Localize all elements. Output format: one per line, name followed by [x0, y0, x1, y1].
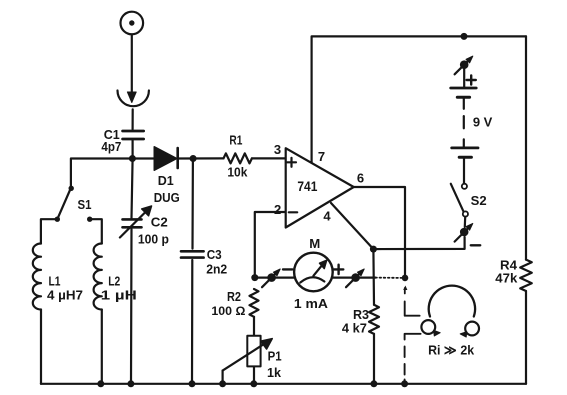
- wire L1 bottom to bus: [40, 310, 42, 384]
- wire C1 junction to S1: [71, 159, 132, 189]
- node bus L2: [97, 380, 104, 387]
- switch S1: [69, 186, 74, 191]
- wire R1 to op-amp pin 3: [252, 157, 286, 159]
- op-amp plus input: [287, 158, 296, 167]
- potentiometer P1: [247, 336, 260, 367]
- wire antenna cup to C1: [132, 109, 134, 129]
- wire C1 junction down to C2: [132, 140, 133, 218]
- resistor R3: [369, 305, 379, 334]
- wire C1 junction to D1 anode: [132, 157, 154, 159]
- node bus headphone: [401, 380, 408, 387]
- wire R2 top node to meter minus: [255, 277, 295, 279]
- probe contact meter plus side: [351, 273, 360, 282]
- wire op-amp pin 4 diagonal: [331, 203, 373, 249]
- op-amp minus input: [289, 211, 297, 213]
- svg-text:P1: P1: [268, 349, 282, 364]
- op-amp U1 741: [286, 148, 354, 227]
- wire meter plus to R3 crossing: [331, 277, 376, 279]
- svg-text:7: 7: [318, 149, 325, 164]
- dashed headphone lead lower: [405, 334, 421, 340]
- svg-text:2n2: 2n2: [206, 261, 227, 276]
- wire op-amp pin 2 to R2 top node: [255, 212, 286, 278]
- battery plus: [467, 75, 476, 84]
- antenna top circle: [121, 12, 144, 35]
- svg-text:4 µH7: 4 µH7: [47, 287, 83, 302]
- node D1/R1/C3: [190, 155, 197, 162]
- svg-text:1k: 1k: [267, 365, 282, 380]
- wire pin4 node to battery minus via S2: [373, 237, 464, 249]
- svg-text:2: 2: [274, 202, 281, 217]
- svg-text:R3: R3: [353, 307, 369, 322]
- node C1/D1/C2: [129, 155, 136, 162]
- wire right edge (top rail down to R4): [525, 36, 527, 259]
- meter M: [294, 253, 333, 292]
- wire dotted meter node to output node: [375, 277, 401, 279]
- wire D1 cathode to R1: [179, 157, 224, 159]
- dashed headphone lead upper: [404, 288, 406, 294]
- wire S1 right contact to L2: [90, 219, 102, 243]
- wire top feedback/supply rail: [312, 36, 526, 163]
- svg-text:47k: 47k: [495, 270, 518, 285]
- svg-text:100 Ω: 100 Ω: [211, 304, 245, 318]
- svg-text:S1: S1: [78, 197, 92, 212]
- resistor R4: [520, 260, 532, 291]
- node bus C2: [127, 380, 134, 387]
- svg-text:Ri ≫ 2k: Ri ≫ 2k: [428, 343, 475, 358]
- antenna cup: [118, 91, 149, 107]
- capacitor C3: [181, 250, 204, 253]
- node bus P1: [250, 380, 257, 387]
- probe contact battery plus: [460, 60, 469, 69]
- svg-text:4: 4: [323, 209, 331, 224]
- svg-text:10k: 10k: [227, 165, 248, 180]
- node top rail/battery: [461, 33, 468, 40]
- node R2/pin2/meter: [251, 274, 258, 281]
- diode D1: [154, 147, 176, 170]
- svg-text:R1: R1: [229, 133, 242, 148]
- svg-text:L1: L1: [49, 273, 61, 288]
- node bus C3: [189, 380, 196, 387]
- wire P1 bottom to bus: [253, 366, 255, 383]
- resistor R1: [224, 153, 252, 163]
- svg-text:6: 6: [357, 170, 364, 185]
- resistor R2: [250, 289, 259, 317]
- svg-text:4p7: 4p7: [101, 139, 121, 154]
- svg-text:S2: S2: [471, 193, 487, 208]
- meter minus: [283, 268, 292, 270]
- svg-text:1 µH: 1 µH: [101, 287, 137, 302]
- node bus P1 wiper: [219, 380, 226, 387]
- antenna arrow: [131, 34, 133, 93]
- svg-text:R2: R2: [227, 289, 241, 304]
- wire bottom bus: [41, 383, 526, 385]
- inductor L2: [94, 244, 102, 310]
- node output/meter junction: [402, 275, 409, 282]
- wire R3 bottom to bus: [373, 334, 375, 384]
- switch S2: [462, 184, 467, 189]
- wire op-amp pin 6 output to output node: [354, 187, 405, 278]
- svg-text:M: M: [309, 236, 320, 251]
- meter plus: [334, 265, 343, 274]
- svg-text:C2: C2: [151, 214, 168, 229]
- node bus R3: [370, 380, 377, 387]
- svg-text:L2: L2: [108, 273, 120, 288]
- svg-text:C3: C3: [207, 247, 222, 262]
- wire S1 left contact to L1: [41, 219, 57, 243]
- wire L2 bottom to bus: [101, 310, 103, 384]
- inductor L1: [33, 244, 41, 310]
- wire pin4 node to R3: [372, 249, 375, 305]
- svg-text:9 V: 9 V: [473, 115, 493, 130]
- svg-text:741: 741: [297, 179, 317, 194]
- node pin4/battery/R3: [370, 246, 377, 253]
- wire R2 bottom to P1: [253, 317, 255, 336]
- variable capacitor C2: [123, 218, 142, 221]
- wire C2 bottom to bus: [130, 229, 133, 384]
- svg-text:3: 3: [274, 142, 281, 157]
- svg-text:4 k7: 4 k7: [342, 321, 367, 336]
- svg-text:1 mA: 1 mA: [294, 296, 328, 311]
- battery BT1 9V: [463, 69, 465, 87]
- capacitor C1: [123, 130, 144, 133]
- probe contact meter minus side: [267, 273, 276, 282]
- svg-text:DUG: DUG: [154, 190, 180, 205]
- battery minus: [471, 244, 480, 246]
- probe contact battery minus: [460, 228, 469, 237]
- headphones Ri: [429, 286, 475, 317]
- svg-text:D1: D1: [158, 173, 174, 188]
- wire D1 junction down to C3: [191, 159, 194, 249]
- wire C3 bottom to bus: [191, 260, 194, 384]
- wire R4 bottom to bus corner: [525, 291, 527, 384]
- svg-text:100 p: 100 p: [138, 232, 169, 247]
